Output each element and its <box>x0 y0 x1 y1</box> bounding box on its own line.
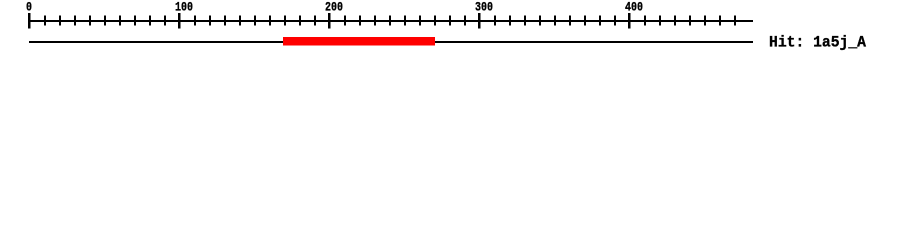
background <box>0 0 900 60</box>
svg-text:0: 0 <box>26 0 32 15</box>
ruler axis line <box>29 20 753 22</box>
svg-text:Hit: 1a5j_A: Hit: 1a5j_A <box>769 34 866 52</box>
ruler major ticks <box>28 13 631 29</box>
svg-text:0: 0 <box>187 0 193 15</box>
ruler minor ticks <box>44 16 736 26</box>
svg-text:0: 0 <box>487 0 493 15</box>
hit match bar <box>283 37 435 46</box>
svg-text:0: 0 <box>337 0 343 15</box>
query line <box>29 41 753 43</box>
svg-text:0: 0 <box>637 0 643 15</box>
